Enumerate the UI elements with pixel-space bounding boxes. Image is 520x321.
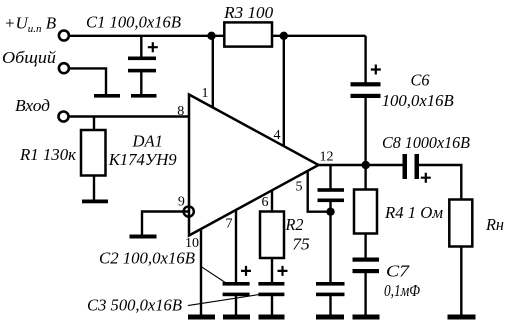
capacitor bootstrap upper plates [318,188,345,192]
capacitor lower bootstrap plates [316,282,345,286]
wire pin 1 drop [212,36,214,109]
svg-text:C1 100,0х16В: C1 100,0х16В [86,13,182,32]
wire C6 bottom to output junction and R4 [364,98,366,190]
ground bar under lower bootstrap cap [316,315,344,320]
wire output pin 12 to C8 [319,164,404,166]
wire C1 to ground [140,72,142,95]
wire C7 to ground [364,273,366,316]
plus sign C6 [371,65,381,75]
svg-text:1: 1 [202,86,209,101]
wire R4 to C7 [364,234,366,259]
capacitor C7 plates [353,258,380,262]
wire Vhod input to pin 8 [70,115,189,117]
resistor R3 [224,22,272,46]
wire C3 to ground [271,296,273,316]
plus sign C8 [421,173,431,183]
resistor R4 [354,190,377,234]
ground bar under C2 [223,315,250,320]
wire C8 to load corner [417,165,461,200]
capacitor C3 plates [258,282,284,286]
wire pin 5 to node A [308,172,330,212]
svg-text:С8 1000х16В: С8 1000х16В [382,133,471,152]
capacitor C6 plates [351,82,381,86]
junction node A below bootstrap cap [326,208,334,216]
junction node at pin 1 rail [207,32,215,40]
leader line C3 label [188,294,262,306]
svg-text:8: 8 [177,104,184,119]
terminal Vhod [59,112,69,122]
svg-text:7: 7 [226,216,233,231]
ground bar under Rn [448,315,476,320]
wire pin 6 to R2 [271,191,273,212]
svg-text:0,1мФ: 0,1мФ [384,281,420,300]
wire pin 9 to ground leg [142,212,189,236]
capacitor C1 plates [128,57,156,61]
leader line C2 label [201,266,227,283]
svg-text:5: 5 [296,179,303,194]
ground bar under pin 10 [188,315,215,320]
svg-text:6: 6 [262,195,269,210]
wire C1 drop from rail [140,36,142,57]
svg-text:C3 500,0х16В: C3 500,0х16В [87,296,183,315]
wire pin 7 to C2 [235,211,237,283]
svg-text:4: 4 [274,128,281,143]
pin 9 inversion bubble [184,206,194,216]
svg-text:Общий: Общий [2,48,57,67]
resistor R2 [260,212,284,259]
junction node at pin 4 rail [280,32,288,40]
wire Obshchiy terminal to ground [70,68,106,95]
wire bootstrap cap drop from output [329,165,331,189]
wire C2 to ground [235,296,237,316]
wire R1 stub from input wire [93,117,95,131]
svg-text:Rн: Rн [485,215,504,234]
ground bar under R1 [82,200,108,204]
plus sign C2 [241,266,251,276]
ground bar under C7 [353,315,380,320]
junction node at output [362,161,370,169]
ground bar under Obshchiy [94,94,120,98]
wire lower cap to ground [329,296,331,316]
plus sign C1 [148,42,158,52]
svg-text:R4 1 Ом: R4 1 Ом [384,203,443,222]
capacitor C8 plates [403,154,408,179]
wire R1 bottom to ground [93,176,95,201]
ground bar under C1 [131,94,157,98]
wire pin 10 to ground [200,230,202,316]
ground bar under C3 [259,315,285,320]
wire pin 4 drop [283,36,285,147]
ground bar under pin 9 [130,235,157,239]
wire bootstrap cap to lower cap [329,202,331,283]
wire top rail right segment [272,35,366,37]
svg-text:С6: С6 [411,70,430,89]
op-amp DA1 triangle [189,95,319,236]
wire Rn bottom to ground [460,247,462,316]
svg-text:R3 100: R3 100 [223,3,274,22]
svg-text:К174УН9: К174УН9 [108,150,177,169]
svg-text:C2 100,0х16В: C2 100,0х16В [99,249,196,268]
terminal Obshchiy [59,63,69,73]
svg-text:10: 10 [185,236,199,251]
svg-text:С7: С7 [386,261,411,280]
svg-text:R2: R2 [285,215,304,234]
capacitor C2 plates [223,282,250,286]
wire R2 to C3 [271,258,273,283]
svg-text:100,0х16В: 100,0х16В [382,91,455,110]
wire rail corner down to C6 [364,36,366,83]
svg-text:Вход: Вход [15,96,50,115]
svg-text:12: 12 [320,149,334,164]
resistor Rn [449,200,472,247]
svg-text:75: 75 [292,235,310,254]
wire top rail left segment [70,35,224,37]
resistor R1 [81,130,106,176]
terminal +U [59,31,69,41]
svg-text:9: 9 [178,195,185,210]
plus sign C3 [278,266,288,276]
svg-text:R1 130к: R1 130к [19,145,77,164]
svg-text:DA1: DA1 [132,132,163,151]
